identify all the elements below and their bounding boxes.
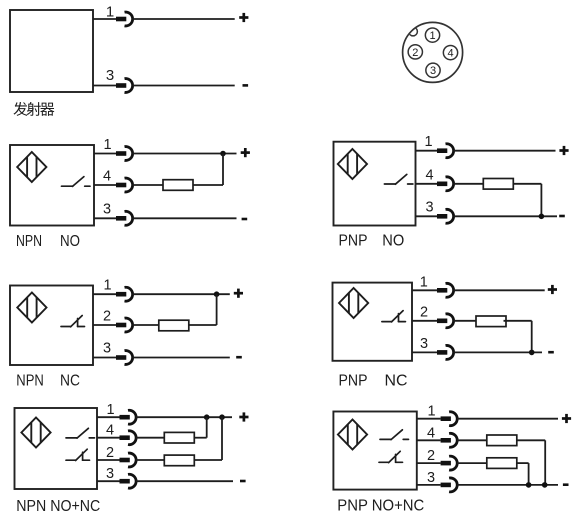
svg-text:NPN: NPN bbox=[16, 373, 44, 390]
svg-text:3: 3 bbox=[106, 67, 114, 84]
svg-text:1: 1 bbox=[103, 278, 111, 294]
svg-text:3: 3 bbox=[106, 466, 114, 482]
svg-text:PNP: PNP bbox=[339, 373, 368, 390]
svg-text:3: 3 bbox=[103, 341, 111, 357]
svg-text:2: 2 bbox=[106, 445, 114, 461]
svg-text:2: 2 bbox=[412, 47, 418, 59]
svg-text:2: 2 bbox=[103, 308, 111, 324]
svg-text:3: 3 bbox=[427, 470, 435, 486]
svg-text:NC: NC bbox=[60, 373, 80, 390]
svg-text:1: 1 bbox=[427, 404, 435, 420]
svg-text:4: 4 bbox=[103, 169, 111, 185]
svg-text:1: 1 bbox=[420, 274, 428, 290]
svg-text:NPN: NPN bbox=[16, 233, 42, 250]
svg-text:4: 4 bbox=[427, 425, 435, 441]
svg-text:2: 2 bbox=[427, 448, 435, 464]
svg-text:1: 1 bbox=[429, 30, 435, 42]
svg-text:4: 4 bbox=[106, 423, 114, 439]
svg-text:3: 3 bbox=[420, 336, 428, 352]
svg-text:3: 3 bbox=[425, 200, 433, 216]
svg-text:4: 4 bbox=[447, 48, 453, 60]
svg-text:1: 1 bbox=[424, 134, 432, 150]
svg-text:3: 3 bbox=[430, 65, 436, 77]
svg-text:NO: NO bbox=[382, 233, 404, 250]
svg-text:NPN NO+NC: NPN NO+NC bbox=[16, 498, 100, 515]
svg-text:PNP: PNP bbox=[339, 233, 368, 250]
svg-text:NO: NO bbox=[60, 233, 80, 250]
svg-text:1: 1 bbox=[106, 402, 114, 418]
svg-text:2: 2 bbox=[420, 305, 428, 321]
svg-text:PNP NO+NC: PNP NO+NC bbox=[337, 498, 424, 515]
svg-text:3: 3 bbox=[103, 202, 111, 218]
svg-text:1: 1 bbox=[103, 137, 111, 153]
svg-text:NC: NC bbox=[385, 373, 408, 390]
svg-text:1: 1 bbox=[106, 4, 114, 21]
svg-text:4: 4 bbox=[425, 167, 433, 183]
